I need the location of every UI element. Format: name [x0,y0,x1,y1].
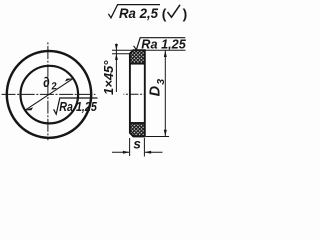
s extension line right [143,138,145,157]
s arrow left-pointing [145,151,152,154]
svg-text:s: s [133,136,141,151]
label D2 [42,73,58,94]
s dimension line right part [145,151,163,153]
centerline of section [124,93,145,95]
svg-text:1×45°: 1×45° [101,60,116,95]
hole edge top [130,63,145,65]
D3 arrow top [164,51,167,58]
vertical centerline [47,42,49,140]
horizontal centerline [2,93,96,95]
svg-text:3: 3 [155,79,167,85]
D3 arrow bottom [164,130,167,137]
s arrow right-pointing [123,151,130,154]
svg-text:): ) [183,6,188,21]
general note check mark [108,5,160,18]
dimension line D2 (diagonal) [25,78,73,110]
section outline [130,50,145,136]
svg-text:(: ( [162,6,167,21]
svg-text:Ra 1,25: Ra 1,25 [141,37,186,52]
svg-text:D: D [147,85,163,96]
arrowhead lower-left [25,107,33,110]
chamfer edge top-left [130,50,133,54]
roughness symbol hole: tick [54,98,98,114]
svg-text:Ra 1,25: Ra 1,25 [59,99,97,114]
dimension line D3 [164,50,166,136]
s extension line left [129,138,131,156]
label D3 (rotated) [147,79,167,97]
chamfer arrow up [115,54,118,60]
roughness symbol top face: tick [134,38,186,50]
chamfer arrow down [115,44,118,50]
inner circle (hole D2) [21,66,79,124]
svg-text:Ra 2,5: Ra 2,5 [119,6,158,21]
extension line chamfer bottom [112,53,129,55]
extension line top (for D3 and chamfer) [112,49,186,51]
s dimension line left part [112,151,129,153]
outer circle [7,51,91,138]
extension line bottom right [146,136,169,138]
arrowhead upper-right [65,78,73,81]
top cross-section hatch [130,50,145,63]
hole edge bottom [130,122,145,124]
chamfer dimension line 1x45 [115,44,117,92]
bottom cross-section hatch [130,123,145,136]
